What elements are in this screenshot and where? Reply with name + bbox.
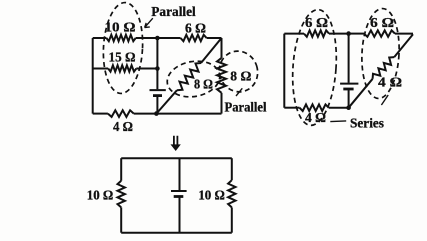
- svg-text:10 Ω: 10 Ω: [87, 189, 114, 204]
- wire node to right 6 ohm: [349, 33, 364, 35]
- resistor 4 ohm bottom right circuit: [300, 104, 329, 111]
- dashed ellipse series group right 6-4 ohm: [360, 8, 402, 100]
- node 15 ohm junction: [155, 66, 160, 71]
- svg-text:Parallel: Parallel: [151, 4, 196, 19]
- wire battery to bottom wire bottom circuit: [179, 198, 181, 233]
- wire node to battery right circuit: [348, 34, 350, 83]
- wire node to 6 ohm: [157, 37, 180, 39]
- wire 6 ohm to node: [329, 33, 349, 35]
- wire 4 ohm to bottom node: [329, 107, 349, 109]
- wire top-left to 10 ohm: [93, 37, 107, 39]
- battery short plate bottom circuit: [174, 195, 184, 198]
- svg-text:6 Ω: 6 Ω: [305, 16, 328, 31]
- resistor 10 ohm left bottom circuit: [118, 181, 125, 208]
- wire diagonal upper right circuit: [394, 34, 413, 57]
- wire node to battery: [156, 69, 158, 90]
- wire diagonal lower right circuit: [349, 79, 373, 108]
- resistor 4 ohm diagonal: [373, 57, 395, 79]
- wire 4 ohm to bottom-right corner: [134, 113, 222, 115]
- wire left edge right circuit: [283, 34, 285, 108]
- pointer line series left: [330, 120, 346, 123]
- wire left edge of left circuit: [92, 38, 94, 114]
- node bottom junction: [154, 111, 159, 116]
- wire 10 ohm to bottom-left corner: [120, 207, 122, 232]
- resistor 10 ohm right bottom circuit: [228, 180, 235, 207]
- resistor 6 ohm: [181, 35, 207, 41]
- battery long plate right circuit: [340, 83, 358, 85]
- svg-text:10 Ω: 10 Ω: [198, 189, 225, 204]
- battery long plate bottom circuit: [171, 190, 187, 192]
- wire bottom bottom circuit: [121, 232, 232, 234]
- resistor 8 ohm vertical: [217, 58, 226, 93]
- svg-text:Parallel: Parallel: [225, 99, 267, 114]
- wire bottom-left to 4 ohm: [93, 113, 108, 115]
- svg-text:4 Ω: 4 Ω: [113, 120, 133, 135]
- svg-text:10 Ω: 10 Ω: [105, 20, 136, 35]
- wire top-left to 6 ohm: [284, 33, 304, 35]
- wire 6 ohm to top-right corner: [395, 33, 413, 35]
- dashed ellipse lobe around diagonal 8 ohm: [164, 57, 222, 101]
- wire 15 ohm to node: [136, 68, 157, 70]
- wire 6 ohm to top-right corner: [207, 37, 222, 39]
- wire top bottom circuit: [121, 157, 232, 159]
- wire battery to bottom node right circuit: [348, 90, 350, 108]
- wire middle vertical upper: [156, 38, 158, 69]
- dashed ellipse series group left 6-4 ohm: [289, 8, 340, 127]
- double arrow down: [174, 136, 178, 145]
- wire diagonal lower: [156, 90, 177, 113]
- node bottom right circuit: [346, 105, 351, 110]
- arrow parallel top to ellipse: [145, 18, 153, 27]
- svg-text:Series: Series: [350, 116, 384, 131]
- svg-text:15 Ω: 15 Ω: [109, 50, 136, 65]
- wire top-left corner down bottom circuit: [120, 158, 122, 181]
- resistor 15 ohm: [108, 65, 136, 71]
- resistor 8 ohm diagonal: [177, 63, 201, 90]
- wire diagonal upper: [201, 38, 222, 63]
- node top middle: [155, 36, 160, 41]
- resistor 4 ohm: [108, 110, 134, 117]
- svg-text:6 Ω: 6 Ω: [185, 21, 206, 36]
- pointer line series right: [381, 95, 388, 105]
- svg-text:8 Ω: 8 Ω: [194, 78, 213, 93]
- svg-text:6 Ω: 6 Ω: [370, 16, 394, 31]
- resistor 6 ohm right of right circuit: [364, 30, 395, 36]
- svg-text:8 Ω: 8 Ω: [230, 69, 251, 84]
- wire middle vertical to battery bottom circuit: [179, 158, 181, 190]
- svg-text:4 Ω: 4 Ω: [378, 76, 402, 91]
- wire battery to bottom node: [156, 97, 158, 114]
- dashed ellipse lobe around vertical 8 ohm: [214, 46, 263, 97]
- battery short plate left circuit: [153, 94, 162, 97]
- dashed ellipse parallel group 10-15 ohm: [101, 2, 145, 95]
- wire top-right corner down: [221, 38, 223, 58]
- battery long plate left circuit: [150, 89, 166, 91]
- resistor 6 ohm left of right circuit: [304, 30, 329, 36]
- resistor 10 ohm: [106, 35, 135, 41]
- svg-text:4 Ω: 4 Ω: [305, 111, 326, 126]
- wire vertical 8 ohm to bottom corner: [221, 93, 223, 114]
- wire top-right corner down bottom circuit: [231, 158, 233, 180]
- node top right circuit: [346, 31, 351, 36]
- wire 10 ohm to bottom-right corner: [231, 207, 233, 232]
- wire 10 ohm to node: [136, 37, 158, 39]
- wire bottom-left to 4 ohm right circuit: [284, 107, 299, 109]
- pointer line parallel bottom: [236, 88, 242, 96]
- battery short plate right circuit: [343, 88, 353, 91]
- wire left edge to 15 ohm: [93, 68, 109, 70]
